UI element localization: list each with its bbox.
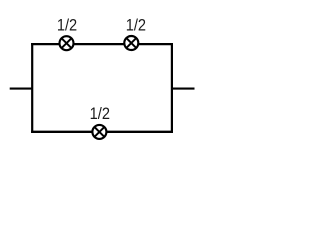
wire: left vertical branch xyxy=(31,43,33,133)
svg-text:1/2: 1/2 xyxy=(126,15,146,34)
wire: top branch segment right xyxy=(138,43,173,45)
svg-text:1/2: 1/2 xyxy=(90,104,110,123)
wire: top branch segment left xyxy=(31,43,60,45)
multiplier M2 (circled-X, top-right) xyxy=(124,36,138,50)
svg-text:1/2: 1/2 xyxy=(57,15,77,34)
wire: right terminal stub xyxy=(172,87,195,89)
wire: top branch segment middle xyxy=(74,43,125,45)
multiplier M1 (circled-X, top-left) xyxy=(60,36,74,50)
wire: right vertical branch xyxy=(171,43,173,133)
wire: left terminal stub xyxy=(10,87,33,89)
wire: bottom branch segment right xyxy=(106,131,173,133)
wire: bottom branch segment left xyxy=(31,131,93,133)
multiplier M3 (circled-X, bottom-middle) xyxy=(92,125,106,139)
